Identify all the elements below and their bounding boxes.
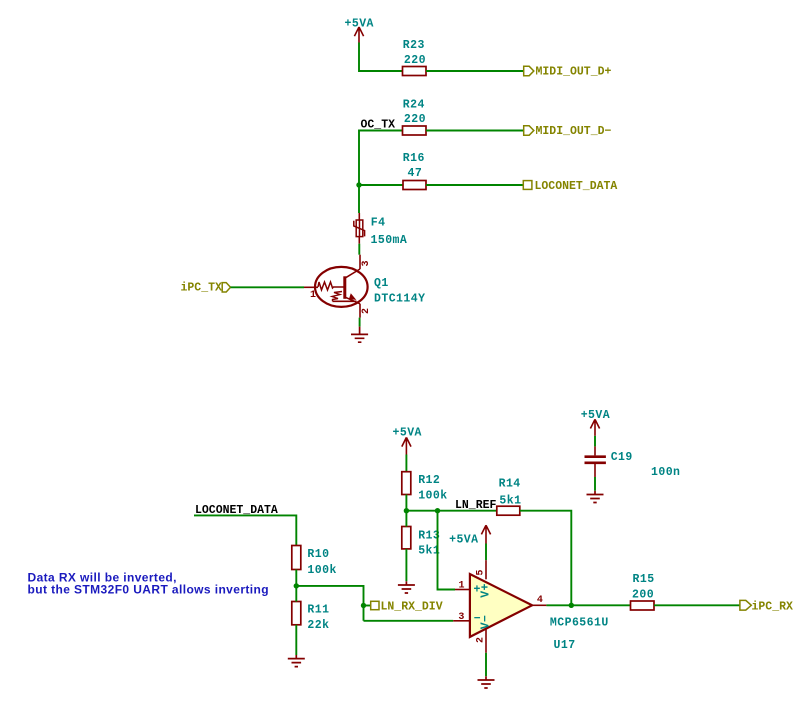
svg-text:MIDI_OUT_D+: MIDI_OUT_D+ <box>536 66 612 79</box>
svg-text:C19: C19 <box>611 451 633 464</box>
junction LN_RX_DIV tap <box>361 603 366 608</box>
svg-text:2: 2 <box>361 308 372 314</box>
wire iPC_TX to Q1 base <box>231 286 305 288</box>
power +5VA above R12 <box>393 426 422 454</box>
svg-text:R10: R10 <box>307 548 329 561</box>
svg-text:5: 5 <box>476 570 487 576</box>
svg-text:LOCONET_DATA: LOCONET_DATA <box>535 180 618 193</box>
svg-text:R14: R14 <box>499 478 521 491</box>
wire junction to R13 <box>405 511 407 527</box>
resistor R12 <box>402 472 448 503</box>
label OC_TX <box>361 118 396 131</box>
wire R15 to label <box>654 604 740 606</box>
svg-text:1: 1 <box>459 581 465 592</box>
global label MIDI_OUT_D- <box>524 125 612 138</box>
wire junction to R16 <box>359 184 403 186</box>
svg-text:R12: R12 <box>418 474 440 487</box>
power +5VA above C19 <box>581 409 610 436</box>
svg-text:+5VA: +5VA <box>449 534 478 547</box>
svg-text:R23: R23 <box>403 39 425 52</box>
svg-text:200: 200 <box>632 588 654 601</box>
label LOCONET_DATA (bottom) <box>195 504 278 517</box>
resistor R14 <box>497 478 522 516</box>
resistor R15 <box>631 573 655 610</box>
svg-text:R15: R15 <box>633 573 655 586</box>
svg-text:R24: R24 <box>403 99 425 112</box>
wire power to opamp pin5 <box>485 544 487 561</box>
ground below opamp <box>478 676 495 688</box>
wire opamp pin2 to ground <box>485 653 487 676</box>
global label iPC_RX <box>740 600 793 613</box>
svg-text:MIDI_OUT_D−: MIDI_OUT_D− <box>536 125 612 138</box>
ground below R13 <box>398 581 415 593</box>
wire R12 to junction <box>405 495 407 511</box>
wire R16 to label <box>426 184 523 186</box>
wire R11 top <box>295 586 297 602</box>
wire junction to fuse <box>358 185 360 213</box>
svg-text:MCP6561U: MCP6561U <box>550 616 609 629</box>
wire Q1 emitter to ground <box>359 318 361 327</box>
resistor R16 <box>403 152 426 189</box>
label LN_REF <box>455 499 497 512</box>
power +5VA top <box>345 18 374 43</box>
resistor R10 <box>292 546 337 577</box>
svg-text:150mA: 150mA <box>371 234 408 247</box>
op-amp U17 MCP6561U <box>453 560 609 653</box>
wire pin1 tap down to opamp <box>438 511 456 590</box>
svg-text:iPC_RX: iPC_RX <box>752 600 794 613</box>
ground below R11 <box>288 655 305 667</box>
global label MIDI_OUT_D+ <box>524 66 612 79</box>
svg-text:100n: 100n <box>651 466 680 479</box>
fuse F4 <box>354 213 407 247</box>
svg-text:22k: 22k <box>307 619 329 632</box>
wire R24 to label <box>426 130 524 132</box>
svg-text:V−: V− <box>479 615 492 630</box>
global label iPC_TX <box>181 282 231 295</box>
wire junction row to R14 <box>406 510 496 512</box>
svg-text:LN_RX_DIV: LN_RX_DIV <box>381 600 443 613</box>
svg-text:3: 3 <box>458 612 464 623</box>
wire junction to LN_RX_DIV <box>296 586 363 621</box>
junction R12-R13 <box>404 508 409 513</box>
wire OC_TX corner <box>359 131 403 186</box>
resistor R11 <box>292 602 330 632</box>
resistor R13 <box>402 527 440 558</box>
wire R23 to label <box>426 70 524 72</box>
wire R14 to feedback <box>520 511 572 606</box>
junction pin1 tap <box>435 508 440 513</box>
svg-text:but the STM32F0 UART allows in: but the STM32F0 UART allows inverting <box>28 583 270 597</box>
wire LN_RX_DIV to opamp pin3 <box>364 620 454 622</box>
note text blue <box>28 570 270 596</box>
wire C19 to ground <box>594 477 596 491</box>
wire power to R23 row <box>359 43 403 72</box>
junction divider <box>294 583 299 588</box>
svg-text:1: 1 <box>310 290 316 301</box>
wire R11 to ground <box>295 625 297 655</box>
wire LOCONET_DATA to R10 <box>194 515 296 545</box>
wire power to R12 <box>405 455 407 472</box>
svg-text:4: 4 <box>537 595 543 606</box>
junction output <box>569 603 574 608</box>
svg-text:100k: 100k <box>418 490 447 503</box>
svg-text:iPC_TX: iPC_TX <box>181 282 223 295</box>
svg-text:220: 220 <box>404 54 426 67</box>
wire R10 to junction <box>295 570 297 586</box>
ground below Q1 <box>351 327 368 343</box>
global label LOCONET_DATA (top) <box>523 180 617 193</box>
svg-text:Q1: Q1 <box>374 277 389 290</box>
svg-text:2: 2 <box>476 637 487 643</box>
junction R16 row <box>356 182 361 187</box>
ground below C19 <box>587 491 604 503</box>
wire output to R15 <box>546 604 630 606</box>
svg-text:F4: F4 <box>371 216 386 229</box>
svg-text:LN_REF: LN_REF <box>455 499 497 512</box>
svg-text:220: 220 <box>404 113 426 126</box>
global label LN_RX_DIV <box>364 600 443 613</box>
wire power to C19 <box>594 436 596 447</box>
resistor R23 <box>403 39 427 76</box>
transistor Q1 <box>304 255 425 318</box>
svg-text:47: 47 <box>408 167 423 180</box>
power +5VA above opamp <box>449 525 491 546</box>
svg-text:R11: R11 <box>307 604 329 617</box>
svg-text:V+: V+ <box>479 583 492 598</box>
svg-text:DTC114Y: DTC114Y <box>374 293 425 306</box>
resistor R24 <box>403 99 427 136</box>
svg-text:R16: R16 <box>403 152 425 165</box>
svg-text:OC_TX: OC_TX <box>361 118 396 131</box>
capacitor C19 <box>585 446 681 479</box>
svg-text:3: 3 <box>361 260 372 266</box>
svg-text:100k: 100k <box>307 564 336 577</box>
svg-text:U17: U17 <box>554 639 576 652</box>
svg-text:5k1: 5k1 <box>499 495 521 508</box>
wire fuse to Q1 <box>358 244 360 255</box>
wire R13 to ground <box>405 549 407 581</box>
